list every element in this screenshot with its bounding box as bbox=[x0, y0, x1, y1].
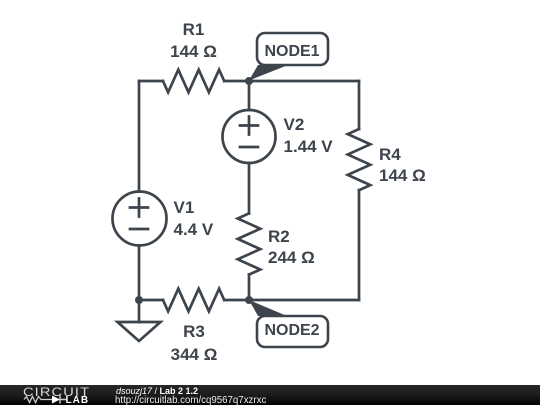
svg-text:NODE2: NODE2 bbox=[264, 322, 319, 339]
svg-text:244 Ω: 244 Ω bbox=[268, 248, 315, 267]
svg-text:R1: R1 bbox=[183, 20, 205, 39]
svg-text:1.44 V: 1.44 V bbox=[284, 137, 334, 156]
svg-text:4.4 V: 4.4 V bbox=[174, 220, 214, 239]
svg-text:R4: R4 bbox=[379, 145, 401, 164]
svg-text:LAB: LAB bbox=[66, 395, 90, 405]
svg-text:144 Ω: 144 Ω bbox=[379, 166, 426, 185]
svg-text:R2: R2 bbox=[268, 227, 290, 246]
svg-text:NODE1: NODE1 bbox=[264, 43, 319, 60]
svg-text:V1: V1 bbox=[174, 198, 195, 217]
svg-text:344 Ω: 344 Ω bbox=[171, 345, 218, 364]
svg-text:R3: R3 bbox=[183, 322, 205, 341]
svg-text:144 Ω: 144 Ω bbox=[170, 42, 217, 61]
svg-text:V2: V2 bbox=[284, 115, 305, 134]
